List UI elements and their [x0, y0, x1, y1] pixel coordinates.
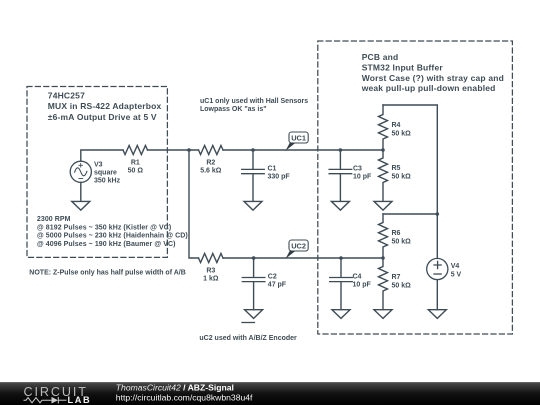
label C4 [353, 273, 372, 288]
svg-text:square: square [94, 170, 117, 177]
svg-text:LAB: LAB [68, 395, 92, 405]
label C2 [268, 273, 287, 288]
svg-text:@ 4096 Pulses ~ 190 kHz (Baume: @ 4096 Pulses ~ 190 kHz (Baumer @ VC) [37, 241, 176, 248]
node E junction (right rail / R6 rail) [436, 212, 440, 216]
svg-text:330 pF: 330 pF [268, 174, 291, 181]
svg-text:50 kΩ: 50 kΩ [392, 173, 412, 180]
wire V3 top to R1 [81, 150, 123, 161]
label C1 [268, 166, 291, 181]
svg-text:50 Ω: 50 Ω [128, 168, 144, 175]
svg-text:C3: C3 [353, 166, 362, 173]
svg-text:Lowpass OK "as is": Lowpass OK "as is" [200, 106, 267, 113]
svg-text:http://circuitlab.com/cqu8kwbn: http://circuitlab.com/cqu8kwbn38u4f [116, 393, 253, 403]
capacitor C4 [330, 258, 353, 310]
svg-text:50 kΩ: 50 kΩ [392, 282, 412, 289]
capacitor C3 [329, 150, 352, 201]
node H junction (C4 tap) [339, 256, 343, 260]
svg-text:PCB and: PCB and [362, 52, 399, 62]
svg-text:R4: R4 [392, 122, 401, 129]
label C3 [353, 166, 372, 181]
wire R1 to node A [148, 149, 199, 151]
svg-text:5 V: 5 V [451, 271, 462, 278]
svg-text:UC1: UC1 [291, 133, 306, 142]
svg-text:NOTE: Z-Pulse only has half pu: NOTE: Z-Pulse only has half pulse width … [29, 270, 185, 277]
flag uC1 [286, 132, 309, 151]
wire V4 top [436, 214, 438, 258]
resistor R5 [379, 150, 388, 201]
ground under R7 [374, 310, 392, 319]
annotation 74HC257 block [48, 90, 162, 122]
label R2 [200, 160, 222, 175]
dashed box PCB STM32 [318, 41, 513, 334]
svg-text:uC2 used with A/B/Z Encoder: uC2 used with A/B/Z Encoder [199, 335, 297, 342]
svg-text:V4: V4 [451, 263, 460, 270]
svg-text:R3: R3 [206, 268, 215, 275]
svg-text:R2: R2 [206, 160, 215, 167]
ground under C3 [331, 201, 349, 210]
svg-text:uC1 only used with Hall Sensor: uC1 only used with Hall Sensors [200, 98, 308, 105]
svg-text:R6: R6 [392, 230, 401, 237]
node C junction (C3 tap) [339, 148, 343, 152]
svg-text:50 kΩ: 50 kΩ [392, 130, 412, 137]
svg-text:C2: C2 [268, 273, 277, 280]
wire node A down to row 2 [189, 150, 199, 258]
resistor R6 [379, 214, 388, 258]
resistor R2 [199, 146, 224, 155]
svg-text:R1: R1 [131, 160, 140, 167]
dashed box 74HC257 MUX [27, 87, 167, 258]
svg-text:UC2: UC2 [291, 241, 306, 250]
svg-text:weak pull-up pull-down enabled: weak pull-up pull-down enabled [361, 83, 496, 93]
svg-text:5.6 kΩ: 5.6 kΩ [200, 168, 222, 175]
wire R3 to node F [223, 257, 383, 259]
resistor R4 [379, 105, 388, 150]
ground under C1 [244, 201, 262, 210]
voltage source V4 [427, 258, 448, 279]
wire R4 top rail [383, 105, 437, 214]
signal ground under C2 [242, 310, 263, 323]
label R3 [203, 268, 219, 283]
ground under R5 [374, 201, 392, 210]
svg-text:Worst Case (?) with stray cap: Worst Case (?) with stray cap and [362, 73, 504, 83]
ground under V4 [428, 310, 446, 319]
resistor R3 [199, 254, 224, 263]
svg-text:C4: C4 [353, 273, 362, 280]
ground under V3 [72, 201, 90, 210]
circuitlab logo resistor-diode glyph [24, 397, 67, 404]
annotation PCB block [361, 52, 504, 93]
svg-text:47 pF: 47 pF [268, 281, 287, 288]
svg-text:350 kHz: 350 kHz [94, 177, 121, 184]
node G junction (C2 tap) [252, 256, 256, 260]
wire R6 top rail [383, 213, 437, 215]
svg-text:V3: V3 [94, 162, 103, 169]
resistor R1 [123, 146, 148, 155]
svg-text:R7: R7 [392, 274, 401, 281]
label R7 [392, 274, 412, 289]
label R5 [392, 165, 412, 180]
svg-text:MUX in RS-422 Adapterbox: MUX in RS-422 Adapterbox [48, 101, 162, 111]
svg-text:@ 8192 Pulses ~ 350 kHz (Kistl: @ 8192 Pulses ~ 350 kHz (Kistler @ VC) [37, 224, 171, 231]
svg-text:C1: C1 [268, 166, 277, 173]
svg-text:10 pF: 10 pF [353, 281, 372, 288]
svg-text:2300 RPM: 2300 RPM [37, 216, 71, 223]
node F junction (R6/R7 divider mid) [381, 256, 385, 260]
node B junction (C1 tap) [251, 148, 255, 152]
svg-text:@ 5000 Pulses ~ 230 kHz (Haide: @ 5000 Pulses ~ 230 kHz (Haidenhain @ CD… [37, 233, 188, 240]
label V3 [94, 162, 121, 185]
svg-text:10 pF: 10 pF [353, 174, 372, 181]
label R4 [392, 122, 412, 137]
wire V4 bottom to ground [436, 280, 438, 310]
svg-text:±6-mA Output Drive at 5 V: ±6-mA Output Drive at 5 V [48, 112, 157, 122]
flag uC2 [286, 240, 309, 259]
resistor R7 [379, 258, 388, 310]
svg-text:50 kΩ: 50 kΩ [392, 238, 412, 245]
wire V3 bottom to ground [80, 182, 82, 201]
ground under C4 [332, 310, 350, 319]
svg-text:R5: R5 [392, 165, 401, 172]
label R6 [392, 230, 412, 245]
svg-text:ThomasCircuit42 / ABZ-Signal: ThomasCircuit42 / ABZ-Signal [116, 382, 234, 392]
node A junction [187, 148, 191, 152]
node D junction (R4/R5 divider top) [381, 148, 385, 152]
label V4 [451, 263, 462, 278]
voltage source V3 [70, 161, 91, 182]
annotation 2300 RPM block [37, 216, 188, 248]
label R1 [128, 160, 144, 175]
svg-text:1 kΩ: 1 kΩ [203, 276, 219, 283]
capacitor C1 [242, 150, 265, 201]
capacitor C2 [242, 258, 265, 310]
annotation uC1 note [200, 98, 308, 113]
wire R2 to R4/R5 node [223, 149, 383, 151]
svg-text:STM32 Input Buffer: STM32 Input Buffer [362, 62, 444, 72]
svg-text:74HC257: 74HC257 [48, 90, 85, 100]
